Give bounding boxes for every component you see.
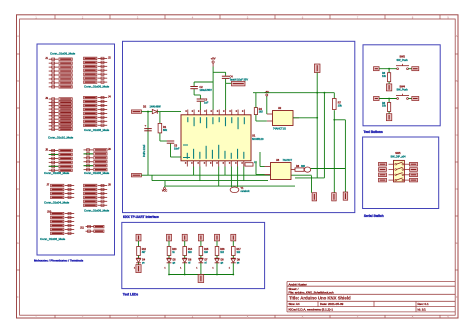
global label KNX_5V [226, 81, 245, 86]
led chain D5 R13 [164, 234, 177, 274]
wire bus below IC row1 [148, 174, 312, 176]
svg-text:Molexstec / Phoenixstec / Term: Molexstec / Phoenixstec / Terminals [34, 259, 84, 263]
svg-text:Conn_01x06_Male: Conn_01x06_Male [84, 85, 110, 89]
svg-text:74AHCT: 74AHCT [283, 159, 293, 162]
connector J4 [84, 96, 108, 126]
led chain D7 R15 [196, 234, 209, 274]
svg-text:R14: R14 [188, 249, 193, 251]
svg-text:100uF/35V: 100uF/35V [200, 89, 213, 92]
svg-text:Conn_01x08_Male: Conn_01x08_Male [84, 128, 110, 132]
wire U2 input from rail [256, 120, 267, 122]
svg-text:F: F [456, 295, 458, 299]
svg-text:D: D [456, 187, 458, 191]
svg-text:C: C [17, 133, 19, 137]
svg-text:1uF: 1uF [204, 102, 209, 105]
svg-text:Conn_01x08_Male: Conn_01x08_Male [44, 171, 70, 175]
wire into IC left [160, 112, 181, 157]
svg-text:R16: R16 [220, 249, 225, 251]
inductor L1 [245, 161, 257, 167]
capacitor C4 [222, 72, 248, 83]
svg-text:Conn_01x08_Male: Conn_01x08_Male [50, 52, 76, 56]
wire branch to C4 [213, 71, 226, 73]
svg-text:A: A [456, 34, 458, 38]
wire drops from IC bottom pins [152, 167, 244, 187]
wire node row [253, 92, 334, 94]
resistor R1 [158, 112, 168, 141]
power +5V symbol [211, 57, 216, 67]
svg-text:+: + [145, 124, 147, 128]
svg-text:1N4148W: 1N4148W [150, 105, 162, 108]
svg-text:SW_DIP_x04: SW_DIP_x04 [390, 156, 406, 159]
IC U2 gate [267, 107, 299, 131]
connector J10 [51, 212, 75, 234]
power VCC symbol [162, 186, 167, 192]
switch SW2 [374, 56, 419, 91]
svg-text:NCN5120: NCN5120 [252, 137, 264, 141]
switch SW4 [374, 85, 419, 120]
crystal Y1 [230, 167, 250, 194]
svg-text:Conn_01x06_Male: Conn_01x06_Male [84, 209, 110, 213]
global label out1 [312, 193, 317, 201]
svg-text:B: B [17, 79, 19, 83]
svg-text:Conn_01x06_Male: Conn_01x06_Male [40, 237, 66, 241]
svg-text:KiCad E.D.A. eeschema (5.1.2): KiCad E.D.A. eeschema (5.1.2)-1 [289, 308, 334, 312]
svg-text:10nF: 10nF [174, 148, 180, 151]
connector J7 [51, 184, 75, 198]
resistor R7 [333, 93, 343, 110]
global label out2 [332, 193, 337, 201]
global label testpoint TP1 [314, 64, 320, 93]
svg-text:Id: 1/1: Id: 1/1 [418, 308, 427, 312]
svg-text:R12: R12 [142, 249, 147, 251]
svg-text:C: C [456, 133, 458, 137]
resistor R6 [295, 165, 306, 171]
connector J5 [49, 149, 73, 171]
diode D3 led [304, 167, 345, 172]
svg-text:B: B [456, 79, 458, 83]
note box test buttons [363, 45, 440, 126]
svg-text:File: arduino_KNX_Schaltblock.: File: arduino_KNX_Schaltblock.sch [289, 291, 335, 295]
svg-text:Conn_01x04_Male: Conn_01x04_Male [44, 201, 70, 205]
svg-text:R15: R15 [204, 249, 209, 251]
note box connectors [37, 44, 115, 255]
svg-text:KNX TP-UART Interface: KNX TP-UART Interface [123, 215, 159, 219]
IC U1 top pins [185, 110, 244, 130]
svg-text:André Huster: André Huster [289, 282, 307, 286]
svg-text:Rev: 0.1: Rev: 0.1 [418, 302, 430, 306]
svg-text:E: E [456, 241, 458, 245]
wire node to R7 and labels [312, 110, 346, 193]
led chain D4 R12 [134, 234, 147, 272]
global label led common [198, 275, 204, 283]
svg-text:E: E [17, 241, 19, 245]
svg-text:+5V: +5V [211, 57, 216, 61]
svg-text:R17: R17 [237, 249, 242, 251]
IC U3 gate [265, 159, 296, 179]
note box main circuit [123, 41, 355, 212]
svg-text:Size: A4: Size: A4 [289, 302, 300, 306]
global label KNX- [131, 174, 148, 177]
svg-text:PolPu 22uF: PolPu 22uF [143, 144, 146, 157]
svg-text:ceralock: ceralock [241, 190, 251, 193]
IC U1 bottom pins [183, 145, 244, 167]
connector J1 [49, 58, 73, 88]
svg-text:Serial Switch: Serial Switch [364, 214, 384, 218]
capacitor C1 polarized [143, 124, 152, 158]
svg-text:1k5: 1k5 [259, 111, 264, 114]
IC U1 TP-UART [181, 115, 264, 161]
svg-text:74AHCT1G: 74AHCT1G [273, 128, 286, 131]
svg-text:Date: 2021-05-09: Date: 2021-05-09 [320, 302, 344, 306]
wire +5V down to IC [212, 67, 214, 111]
global label KNX+ [131, 110, 149, 113]
connector J11 two pin [80, 225, 104, 232]
svg-text:J10: J10 [47, 210, 52, 214]
svg-text:Test LEDs: Test LEDs [123, 293, 139, 297]
svg-text:Conn_01x10_Male: Conn_01x10_Male [48, 135, 74, 139]
wire common led ground [168, 274, 234, 276]
svg-text:Test Buttons: Test Buttons [364, 130, 383, 134]
led chain D6 R14 [180, 234, 193, 274]
resistor R4 right of IC [254, 93, 263, 121]
svg-text:Title: Arduino Uno KNX Shield: Title: Arduino Uno KNX Shield [289, 296, 351, 301]
svg-text:U1: U1 [252, 134, 256, 138]
svg-text:SW_Push: SW_Push [397, 89, 409, 92]
svg-text:Conn_01x06_Male: Conn_01x06_Male [84, 171, 110, 175]
wire bus below IC row3 [165, 185, 295, 187]
switch SW1 DIP [379, 152, 418, 182]
wire C4 to IC pin [225, 83, 227, 110]
power +5V near U2 [265, 91, 270, 114]
svg-text:F: F [17, 295, 19, 299]
title block [287, 282, 455, 312]
wire stubs U3 [256, 152, 265, 175]
capacitor C3 [194, 95, 209, 110]
capacitor C5 [160, 141, 180, 157]
svg-text:D: D [17, 187, 19, 191]
wire bus below IC row2 [152, 180, 268, 182]
svg-text:R13: R13 [172, 249, 177, 251]
global label out3 [343, 192, 348, 200]
note box test leds [122, 222, 265, 288]
led chain D8 R16 [212, 234, 225, 274]
connector J2 [84, 57, 108, 83]
led chain D9 R17 [229, 234, 242, 274]
wire U2 output to node [293, 92, 325, 178]
connector J3 [49, 98, 73, 131]
svg-text:J11: J11 [80, 226, 85, 230]
wire KNX+ vertical rail [147, 112, 149, 176]
capacitor C2 [190, 82, 213, 95]
note box serial switch [363, 137, 439, 209]
connector J8 [84, 184, 108, 206]
diode D2 1N4148 [143, 105, 161, 113]
connector J6 [84, 149, 108, 171]
svg-text:TantAl 10uF 35V: TantAl 10uF 35V [230, 78, 249, 81]
svg-text:VCC: VCC [162, 190, 167, 193]
svg-text:A: A [17, 34, 19, 38]
svg-text:SW_Push: SW_Push [397, 59, 409, 62]
